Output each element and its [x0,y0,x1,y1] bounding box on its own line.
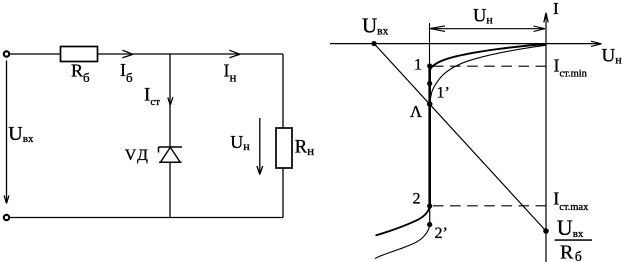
graph I axis (vertical) [544,13,548,262]
svg-text:Iб: Iб [120,60,133,85]
resistor Rn [276,128,292,168]
wire top-left [9,53,60,55]
zener diode VD anode base line [159,161,182,163]
second characteristic vertical segment (thin) [429,206,431,225]
svg-text:Uн: Uн [602,45,623,66]
node Uvx dot on axis [371,41,376,46]
zener diode VD cathode bar [159,147,183,153]
svg-text:Rб: Rб [560,241,582,262]
svg-text:1: 1 [414,57,422,74]
zener characteristic vertical segment (thick) [428,66,431,206]
wire diode branch lower [169,162,171,217]
node point 1' dot [427,81,432,86]
current arrow Ib [122,50,133,58]
svg-text:VД: VД [125,147,148,164]
svg-text:Uвх: Uвх [362,13,389,37]
svg-text:1’: 1’ [437,85,450,102]
second characteristic bottom tail (thin curve) [375,225,430,259]
svg-text:Uвх: Uвх [8,123,34,145]
graph U axis (horizontal) [330,41,602,46]
label Uvx/Rb fraction [555,215,593,262]
svg-text:Uвх: Uвх [557,215,584,240]
svg-text:Iн: Iн [224,61,237,85]
svg-text:I: I [553,0,559,18]
node load line end dot [543,228,549,234]
svg-text:Rб: Rб [71,61,90,85]
node point 1 dot [427,63,432,68]
svg-text:Λ: Λ [410,102,422,121]
guide tick at stabilization voltage [429,23,431,66]
zener characteristic upper knee (thick curve) [430,44,546,71]
current arrow Ist [168,97,173,105]
wire right lower [282,168,284,218]
zener characteristic bottom tail (thick curve) [376,206,430,236]
dashed line Ist.max [433,205,546,207]
arrow Uvx (input voltage polarity arrow) [4,61,9,204]
svg-text:Iст: Iст [144,84,160,108]
load line [374,44,546,232]
arrow Un (load voltage polarity arrow) [257,118,263,175]
dashed line Ist.min [433,65,546,67]
zener diode VD triangle [161,147,181,162]
svg-text:Iст.max: Iст.max [553,189,589,213]
input terminal top [4,51,9,56]
svg-text:2: 2 [413,191,421,208]
svg-text:Rн: Rн [295,137,314,158]
svg-text:2’: 2’ [435,225,448,242]
node point 2 dot [427,203,432,208]
wire top-middle [98,53,284,55]
wire bottom [9,217,283,219]
input terminal bottom [4,215,9,220]
wire diode branch upper [169,54,171,147]
svg-text:Iст.min: Iст.min [554,56,588,80]
svg-text:Uн: Uн [230,132,250,153]
node point A dot (operating point) [427,101,433,107]
svg-text:Uн: Uн [473,6,493,26]
second characteristic upper knee (thin curve) [430,45,546,105]
dimension line Un with arrows [430,26,545,32]
node point 2' dot [427,222,432,227]
wire right upper [282,54,284,128]
resistor Rb [61,47,98,62]
current arrow In [229,50,240,58]
